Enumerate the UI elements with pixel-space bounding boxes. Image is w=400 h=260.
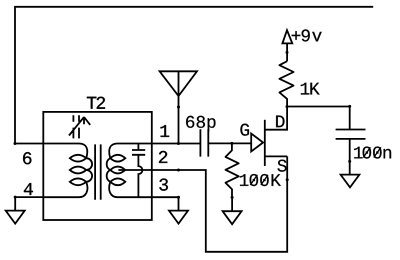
transistor gate arrow (251, 134, 263, 152)
wire source (265, 155, 287, 157)
capacitor 68p (200, 129, 208, 156)
node antenna stem dot (177, 106, 180, 109)
wire drain node to 100n (287, 106, 350, 108)
transformer core (95, 144, 101, 199)
wire top rail and left rail (15, 7, 373, 144)
label 3 (159, 179, 168, 191)
capacitor 100n (336, 107, 366, 175)
label T2 (87, 97, 105, 109)
capacitor internal (across secondary winding) (132, 144, 145, 198)
antenna (160, 71, 197, 96)
trimmer adjustment dashes (73, 115, 79, 138)
label 100n (354, 147, 391, 159)
ground pin3 (169, 211, 188, 224)
resistor 1K (279, 61, 293, 106)
node pin4 corner dot (14, 196, 17, 199)
node pin2 wire dot (177, 169, 180, 172)
wire pin 6 (15, 143, 43, 145)
node pin6 corner dot (14, 142, 17, 145)
transformer T2 box (43, 112, 152, 220)
wire 68p to gate (208, 142, 251, 144)
inductor primary winding (43, 144, 92, 198)
label 1K (301, 83, 320, 95)
node 100n bottom dot (348, 160, 351, 163)
node gate junction dot (230, 142, 233, 145)
wire pin 3 (152, 197, 179, 210)
resistor 100K (226, 143, 239, 197)
inductor secondary winding (107, 144, 152, 198)
power +9v arrow (282, 30, 292, 43)
label D (276, 116, 284, 128)
wire pin 2 tap (118, 169, 151, 171)
node pin3 corner dot (177, 196, 180, 199)
ground 100K (223, 211, 242, 224)
node source junction dot (286, 178, 289, 181)
label G (240, 124, 249, 136)
label 2 (159, 151, 167, 163)
wire pin 1 (152, 143, 201, 145)
node drain node dot (286, 105, 289, 108)
trimmer adjustment arrow (69, 117, 90, 136)
ground left (6, 211, 25, 224)
label 1 (161, 125, 170, 137)
wire drain (265, 107, 287, 130)
wire 100K to ground (231, 197, 233, 211)
node antenna junction dot (177, 142, 180, 145)
wire pin 2 to source (152, 156, 287, 251)
ground 100n (341, 175, 360, 188)
label S (278, 160, 287, 172)
label 6 (23, 152, 31, 164)
node 100K bottom dot (231, 196, 234, 199)
wire pin 4 (15, 197, 43, 211)
node 100n top dot (348, 105, 351, 108)
label 68p (186, 116, 215, 132)
label 4 (24, 183, 33, 195)
label +9v (292, 29, 322, 41)
node +9v stem dot (286, 51, 289, 54)
label 100K (240, 174, 281, 186)
transistor JFET channel (264, 120, 266, 166)
